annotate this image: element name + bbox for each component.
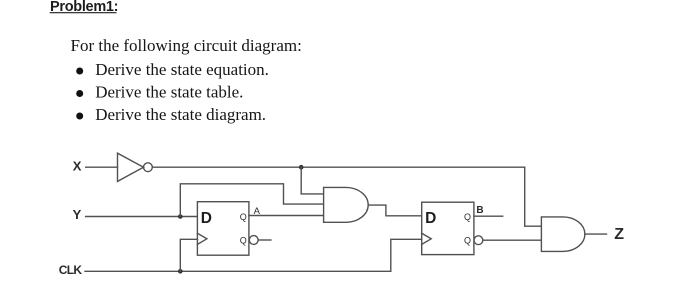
inverter (NOT gate) <box>118 153 144 181</box>
svg-text:Derive the state diagram.: Derive the state diagram. <box>95 105 266 124</box>
node junction on CLK lead <box>178 269 183 274</box>
wire CLK lead <box>85 270 391 272</box>
FF1 Q-bar bubble <box>249 236 258 245</box>
wire B stub from FF2 Q <box>474 215 503 217</box>
svg-text:CLK: CLK <box>59 263 83 277</box>
node junction on Y lead <box>178 214 183 219</box>
AND gate AND1 <box>324 187 369 222</box>
FF2 clock triangle <box>422 233 432 244</box>
wire X' drop to AND1 <box>301 167 323 194</box>
bullet 2 <box>76 90 83 97</box>
flip-flop FF1 box <box>197 202 249 256</box>
wire FF1 Q-bar stub <box>258 239 271 241</box>
wire AND1 output to FF2 D <box>368 205 422 216</box>
wire AND2 output <box>585 233 607 235</box>
bullet 1 <box>76 68 83 75</box>
FF1 clock triangle <box>197 233 207 244</box>
wire Y branch to AND1 <box>180 184 323 217</box>
node junction on top rail <box>299 165 304 170</box>
svg-text:Derive the state equation.: Derive the state equation. <box>95 60 269 79</box>
svg-text:Q: Q <box>240 212 247 222</box>
wire FF2 Q-bar to AND2 <box>483 239 542 241</box>
wire top rail <box>152 166 524 168</box>
bullet 3 <box>76 113 83 120</box>
wire Y lead <box>86 216 198 218</box>
wire top rail drop to AND2 <box>525 167 542 226</box>
flip-flop FF2 box <box>422 202 474 254</box>
svg-text:Y: Y <box>73 207 82 222</box>
svg-text:D: D <box>425 210 436 227</box>
svg-text:B: B <box>476 205 483 216</box>
svg-text:Q: Q <box>240 235 247 245</box>
FF2 Q-bar bubble <box>474 236 483 245</box>
svg-text:For the following circuit diag: For the following circuit diagram: <box>71 36 302 55</box>
svg-text:Q: Q <box>464 212 471 222</box>
inverter bubble <box>144 163 153 172</box>
wire X lead <box>86 166 118 168</box>
svg-text:X: X <box>73 159 82 174</box>
svg-text:D: D <box>201 210 212 227</box>
AND gate AND2 <box>541 217 584 252</box>
wire CLK to FF1 clock <box>180 239 197 271</box>
wire A from FF1 Q to AND1 <box>249 215 324 217</box>
svg-text:Derive the state table.: Derive the state table. <box>95 82 243 101</box>
svg-text:Q: Q <box>464 235 471 245</box>
wire CLK to FF2 clock <box>391 239 422 271</box>
svg-text:Z: Z <box>614 226 624 243</box>
title Problem1: <box>50 0 119 15</box>
